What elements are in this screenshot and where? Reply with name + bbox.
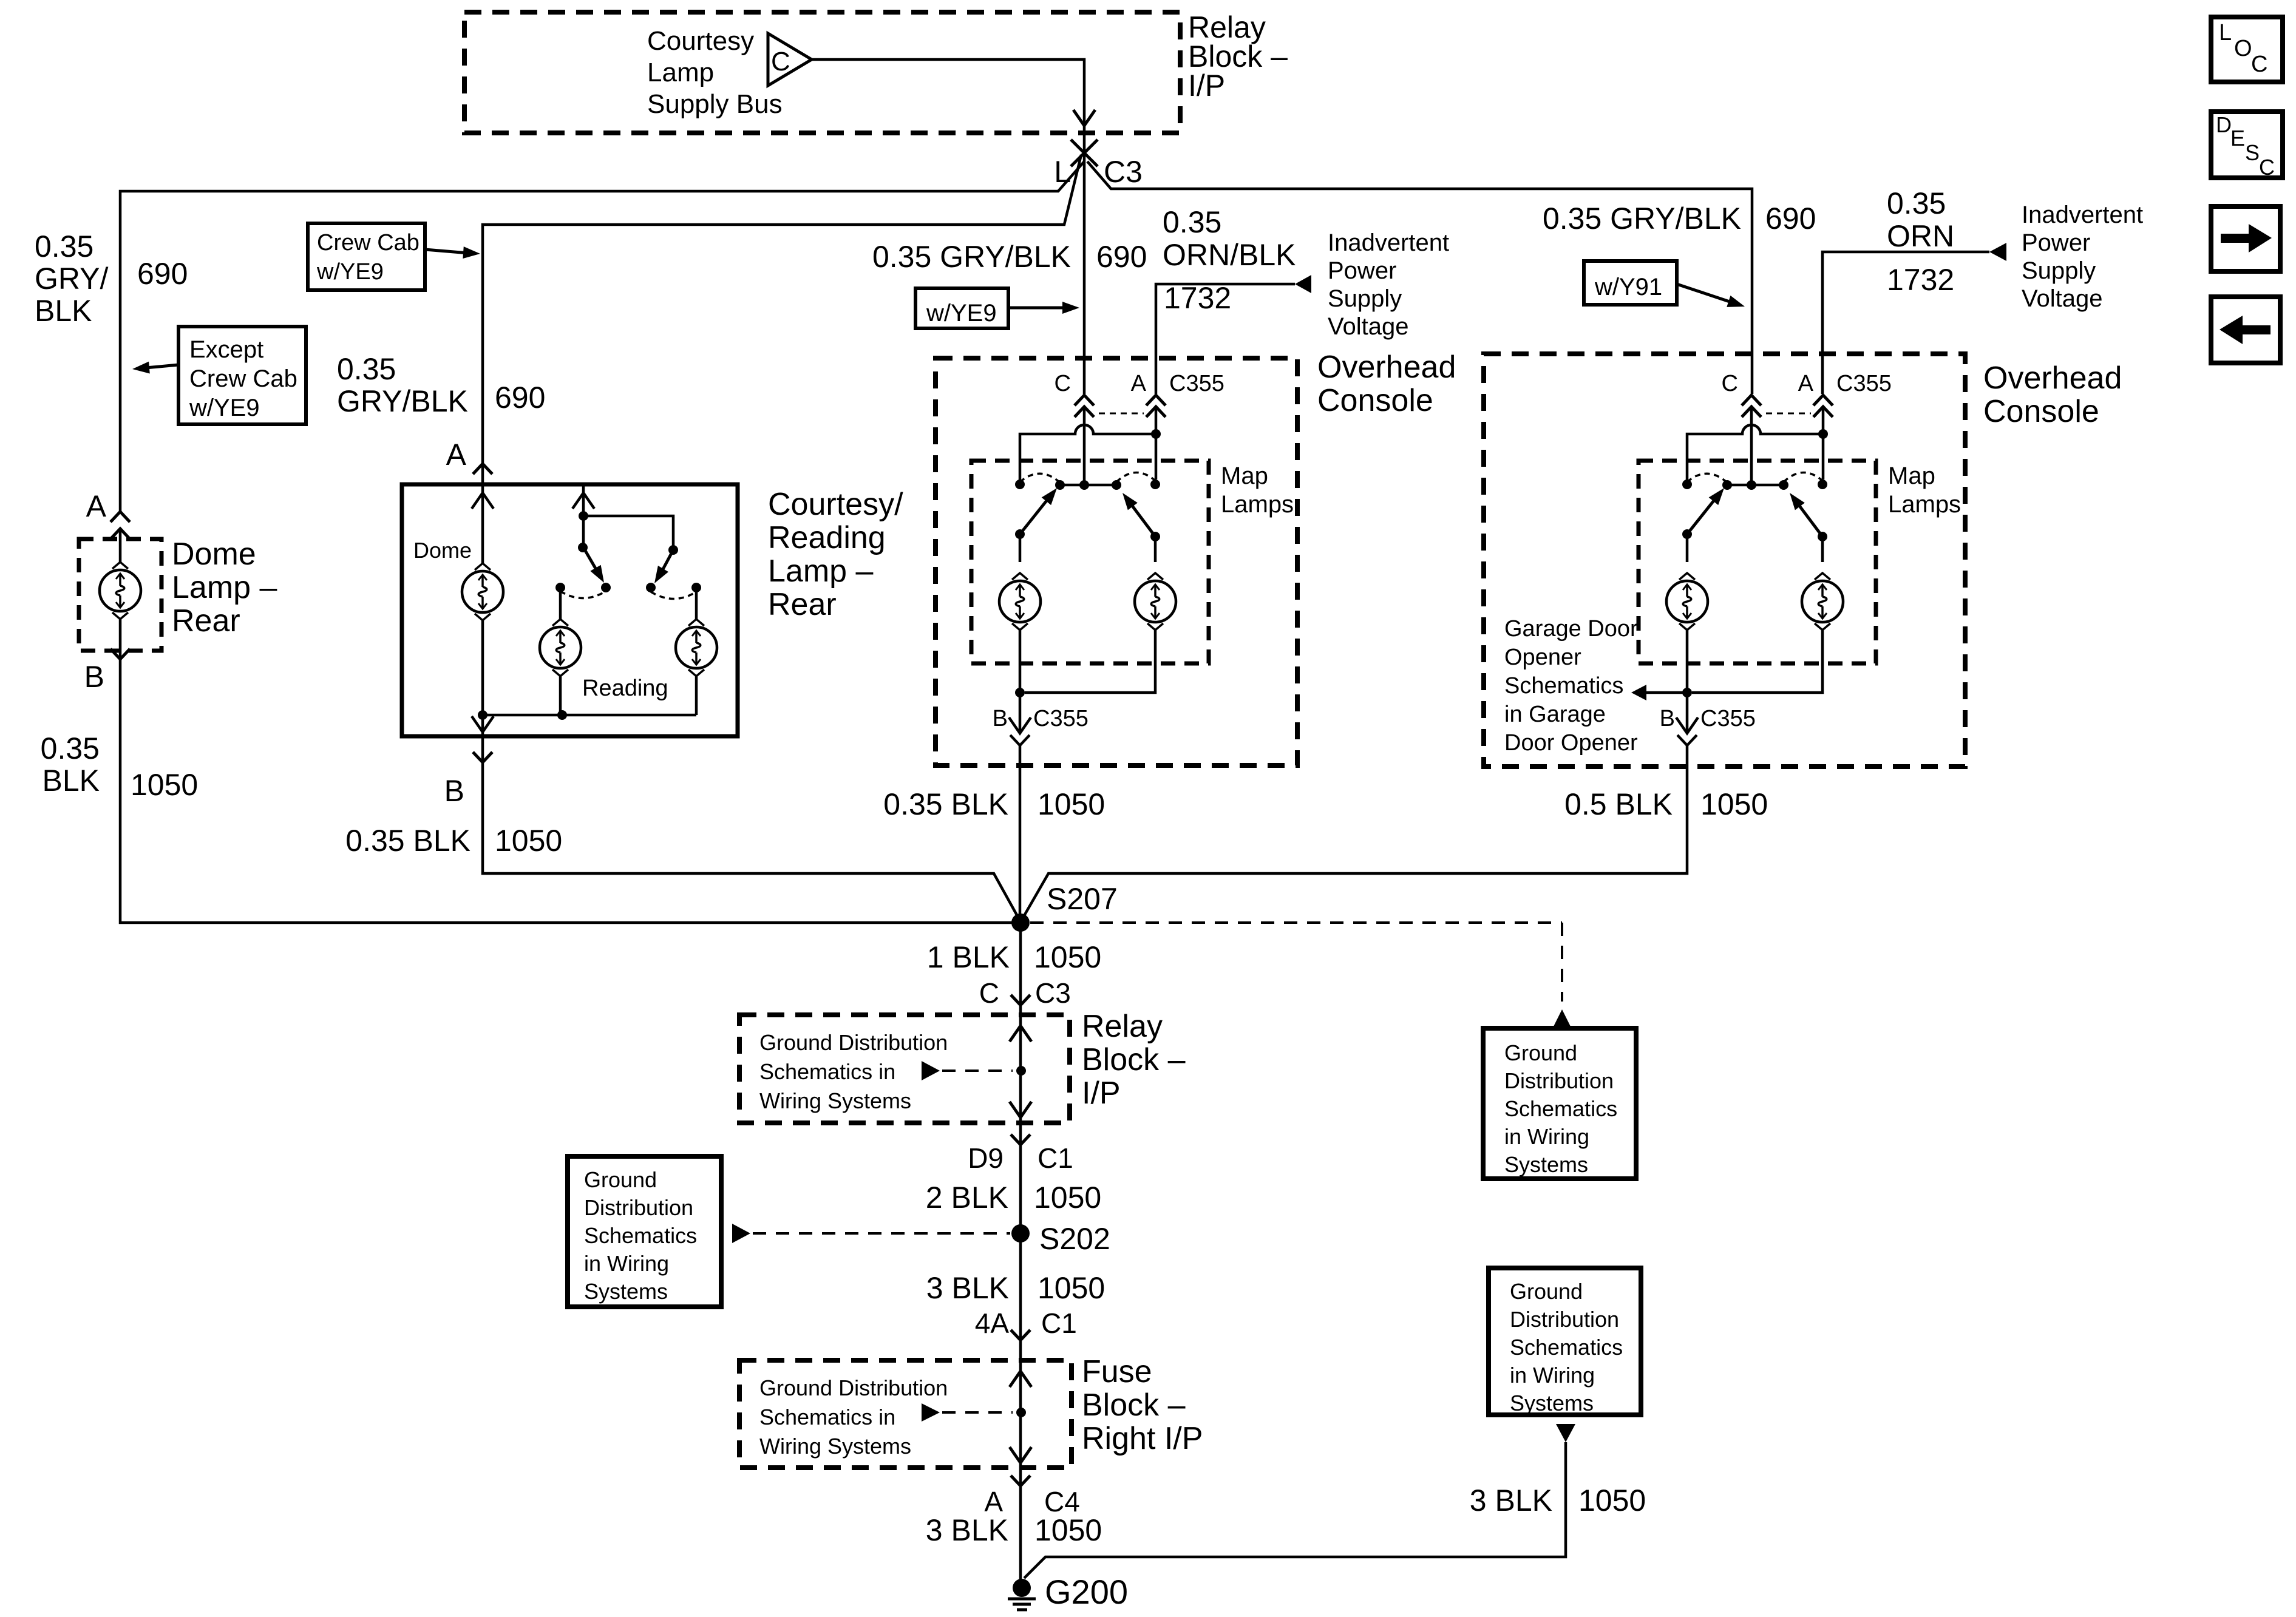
svg-text:Overhead: Overhead [1983,361,2122,396]
svg-text:C1: C1 [1041,1307,1077,1339]
svg-text:4A: 4A [975,1307,1010,1339]
svg-text:Voltage: Voltage [2022,285,2102,312]
svg-text:Schematics: Schematics [1504,673,1623,699]
svg-text:3 BLK: 3 BLK [926,1271,1009,1305]
svg-text:Fuse: Fuse [1082,1354,1152,1389]
svg-text:Ground: Ground [1510,1279,1583,1304]
svg-text:Opener: Opener [1504,645,1581,670]
svg-text:A: A [86,489,107,523]
svg-text:Garage Door: Garage Door [1504,616,1638,642]
svg-text:Schematics: Schematics [584,1223,697,1248]
svg-text:w/YE9: w/YE9 [189,395,260,421]
svg-text:Ground: Ground [1504,1040,1577,1065]
svg-text:1 BLK: 1 BLK [927,940,1010,974]
svg-text:C: C [979,977,999,1009]
svg-text:Dome: Dome [172,537,256,572]
svg-text:0.35 BLK: 0.35 BLK [345,824,470,858]
svg-text:0.35: 0.35 [1887,186,1946,220]
svg-text:Schematics in: Schematics in [759,1405,895,1429]
svg-text:Supply: Supply [2022,257,2096,284]
svg-text:w/YE9: w/YE9 [316,259,384,285]
svg-text:3 BLK: 3 BLK [1470,1483,1552,1517]
svg-text:1050: 1050 [1700,787,1768,821]
svg-text:Schematics: Schematics [1510,1335,1623,1360]
svg-text:O: O [2234,36,2252,61]
svg-text:690: 690 [1765,202,1816,236]
svg-text:A: A [446,438,467,472]
svg-text:0.35: 0.35 [35,229,93,263]
svg-text:Crew Cab: Crew Cab [317,230,419,256]
svg-text:0.35 BLK: 0.35 BLK [883,787,1008,821]
svg-text:Except: Except [189,336,263,363]
svg-text:L: L [1054,155,1071,189]
svg-text:0.35: 0.35 [41,731,100,765]
svg-text:BLK: BLK [35,294,92,328]
svg-text:w/Y91: w/Y91 [1594,274,1662,300]
svg-text:Supply: Supply [1328,285,1402,312]
svg-text:S207: S207 [1047,882,1118,916]
svg-text:I/P: I/P [1188,69,1225,103]
svg-text:1050: 1050 [1034,1513,1102,1547]
svg-text:Ground Distribution: Ground Distribution [759,1030,948,1055]
svg-text:D9: D9 [968,1142,1004,1174]
svg-text:C355: C355 [1033,706,1089,731]
svg-text:B: B [84,660,104,694]
svg-text:S202: S202 [1039,1222,1110,1256]
svg-text:Ground: Ground [584,1167,657,1192]
svg-text:in Garage: in Garage [1504,702,1606,727]
svg-text:0.35: 0.35 [1163,205,1221,239]
svg-text:690: 690 [137,257,188,291]
svg-text:Distribution: Distribution [1510,1307,1619,1332]
svg-text:1050: 1050 [1578,1483,1646,1517]
svg-text:C: C [771,47,790,76]
svg-text:0.5 BLK: 0.5 BLK [1564,787,1673,821]
svg-text:Systems: Systems [1504,1152,1588,1177]
svg-text:Courtesy: Courtesy [647,26,754,56]
svg-text:Power: Power [1328,257,1396,284]
svg-text:Map: Map [1221,463,1268,489]
svg-text:Courtesy/: Courtesy/ [768,487,903,522]
svg-text:in Wiring: in Wiring [1510,1363,1595,1388]
svg-text:in Wiring: in Wiring [584,1251,669,1276]
svg-text:Reading: Reading [582,676,668,701]
svg-text:L: L [2219,20,2232,46]
svg-text:A: A [1131,371,1147,396]
svg-text:Supply Bus: Supply Bus [647,89,783,119]
svg-text:Relay: Relay [1082,1009,1163,1044]
svg-text:Voltage: Voltage [1328,313,1408,340]
svg-text:G200: G200 [1045,1573,1128,1611]
svg-text:Door Opener: Door Opener [1504,730,1638,756]
svg-text:Rear: Rear [172,603,240,639]
svg-text:C: C [2251,52,2267,77]
svg-text:Block –: Block – [1082,1388,1186,1423]
svg-text:Lamps: Lamps [1221,491,1294,518]
svg-text:1050: 1050 [1038,1271,1105,1305]
svg-text:ORN: ORN [1887,219,1954,253]
svg-text:Overhead: Overhead [1317,350,1456,385]
svg-text:690: 690 [495,381,545,415]
svg-text:Block –: Block – [1082,1042,1186,1077]
svg-text:1050: 1050 [1034,1181,1101,1215]
svg-text:0.35: 0.35 [337,352,396,386]
svg-text:C3: C3 [1104,155,1143,189]
svg-text:w/YE9: w/YE9 [926,300,997,327]
svg-text:S: S [2245,140,2260,165]
svg-text:C: C [2259,155,2275,180]
svg-text:I/P: I/P [1082,1076,1121,1111]
svg-text:D: D [2216,112,2232,137]
svg-text:Lamp –: Lamp – [172,570,277,605]
svg-text:C355: C355 [1169,371,1224,396]
svg-text:Rear: Rear [768,587,837,622]
svg-text:GRY/: GRY/ [35,262,108,296]
svg-text:Schematics in: Schematics in [759,1059,895,1084]
svg-text:690: 690 [1096,240,1147,274]
svg-text:Inadvertent: Inadvertent [2022,202,2143,228]
svg-text:C3: C3 [1035,977,1071,1009]
svg-text:1732: 1732 [1164,281,1231,315]
svg-text:Distribution: Distribution [1504,1068,1614,1093]
svg-text:Wiring Systems: Wiring Systems [759,1434,911,1459]
svg-text:Dome: Dome [413,538,472,563]
svg-text:Power: Power [2022,229,2090,256]
svg-text:Right I/P: Right I/P [1082,1421,1203,1456]
svg-text:B: B [993,706,1008,731]
svg-text:Systems: Systems [1510,1391,1594,1415]
svg-text:GRY/BLK: GRY/BLK [337,384,468,418]
svg-text:Crew Cab: Crew Cab [189,365,297,392]
svg-text:0.35 GRY/BLK: 0.35 GRY/BLK [1543,202,1741,236]
svg-text:ORN/BLK: ORN/BLK [1163,238,1296,272]
svg-text:Lamp –: Lamp – [768,554,874,589]
svg-text:Systems: Systems [584,1279,668,1304]
svg-text:3 BLK: 3 BLK [926,1513,1008,1547]
svg-text:C: C [1055,371,1071,396]
svg-text:B: B [444,774,464,808]
svg-text:BLK: BLK [42,764,100,798]
svg-text:Inadvertent: Inadvertent [1328,229,1449,256]
svg-text:1050: 1050 [131,768,198,802]
svg-text:in Wiring: in Wiring [1504,1124,1589,1149]
svg-text:1732: 1732 [1887,263,1954,297]
svg-text:Ground Distribution: Ground Distribution [759,1375,948,1400]
svg-text:Wiring Systems: Wiring Systems [759,1088,911,1113]
svg-text:Console: Console [1317,383,1433,418]
svg-text:1050: 1050 [1038,787,1105,821]
svg-text:Distribution: Distribution [584,1195,693,1220]
svg-text:Lamp: Lamp [647,58,714,87]
svg-text:1050: 1050 [1034,940,1101,974]
svg-text:0.35 GRY/BLK: 0.35 GRY/BLK [872,240,1071,274]
svg-text:Console: Console [1983,394,2099,429]
svg-text:Reading: Reading [768,520,886,555]
svg-text:C1: C1 [1038,1142,1073,1174]
svg-text:Schematics: Schematics [1504,1096,1617,1121]
svg-text:E: E [2230,126,2245,151]
svg-text:2 BLK: 2 BLK [926,1181,1008,1215]
svg-text:1050: 1050 [495,824,562,858]
